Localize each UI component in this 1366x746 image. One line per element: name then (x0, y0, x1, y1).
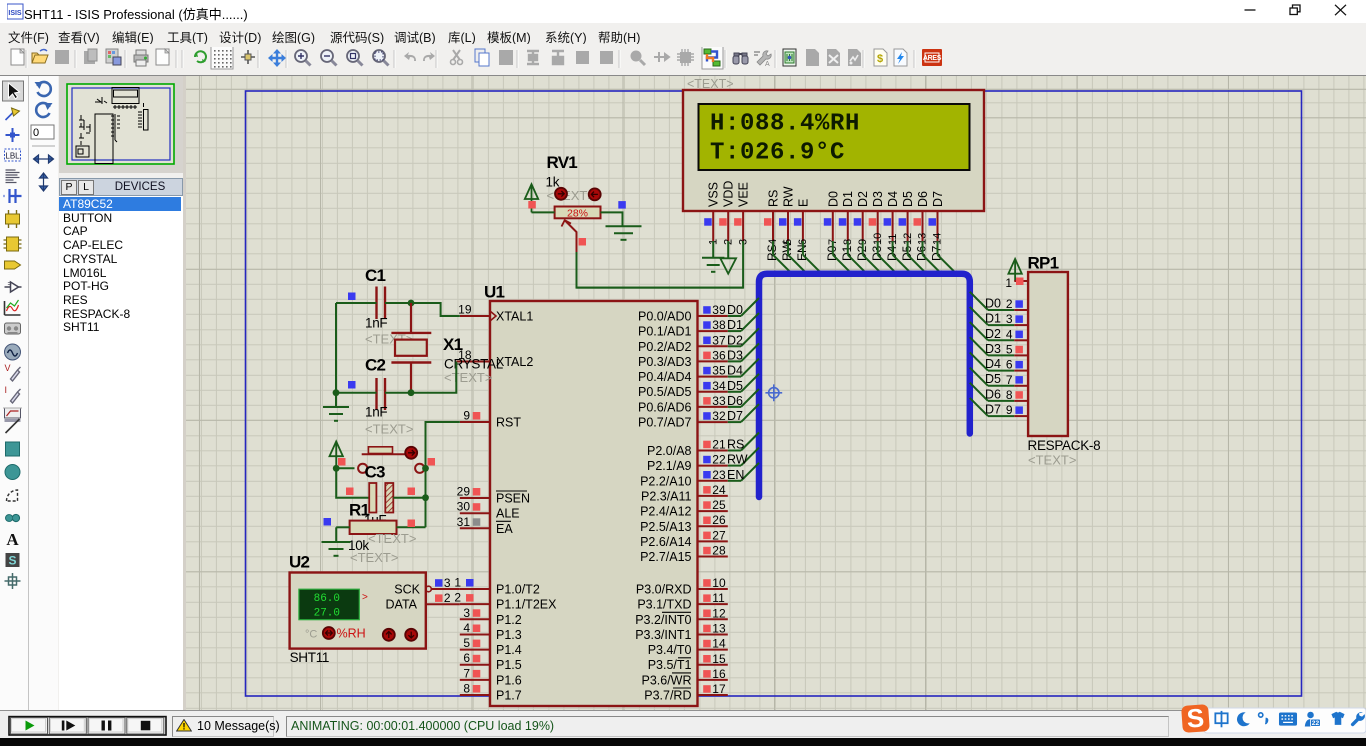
U1 pin 17 (P3.7) stub (698, 682, 728, 696)
svg-text:39: 39 (712, 303, 726, 317)
LCD pin 8 D1 (839, 191, 855, 245)
svg-text:V: V (5, 363, 11, 373)
U1 pin 10 (P3.0) stub (698, 576, 728, 590)
wire LCD pin 10 to bus (878, 241, 897, 274)
svg-text:4: 4 (463, 621, 470, 635)
C1 value 1nF (365, 316, 387, 331)
svg-text:P1.3: P1.3 (496, 628, 522, 642)
U1 pin label P0.0/AD0 (638, 310, 692, 324)
svg-text:VSS: VSS (707, 182, 721, 207)
U2 humidity/temperature display (299, 589, 359, 620)
node label D4 at RP1 pin 6 (985, 357, 1001, 371)
U2 reference label (289, 553, 310, 572)
node label D0 at LCD pin 7 (825, 245, 839, 261)
U1 pin 29 stub (457, 485, 490, 499)
svg-text:30: 30 (457, 500, 471, 514)
svg-text:D6: D6 (916, 191, 930, 207)
U2 %RH label (337, 627, 366, 641)
RP1 pin 5 wire from bus (net D3) (970, 337, 1028, 356)
svg-text:D3: D3 (985, 342, 1001, 356)
U2 mode button (323, 627, 335, 639)
svg-text:EN: EN (727, 468, 744, 482)
wire LCD pin 7 to bus (833, 241, 852, 274)
mouse cursor crosshair (765, 384, 782, 401)
wire U1 P2.2 to bus (728, 463, 759, 481)
RP1 reference label (1028, 254, 1059, 273)
svg-text:34: 34 (712, 379, 726, 393)
U1 pin label P2.7/A15 (640, 550, 691, 564)
svg-text:$: $ (877, 53, 883, 65)
node label D0 at RP1 pin 2 (985, 297, 1001, 311)
U1 pin label P2.6/A14 (640, 535, 691, 549)
svg-text:28: 28 (712, 544, 726, 558)
node junction button/rail (422, 465, 429, 472)
U2 up button (383, 629, 395, 641)
U1 pin 11 (P3.1) stub (698, 591, 728, 605)
svg-text:P3.4/T0: P3.4/T0 (648, 643, 692, 657)
U1 pin 19 (XTAL1) stub (458, 303, 490, 317)
U2 pin label SCK (394, 583, 431, 597)
svg-text:T:026.9°C: T:026.9°C (710, 140, 845, 167)
U1 reference label (484, 283, 505, 302)
svg-text:P2.2/A10: P2.2/A10 (640, 474, 691, 488)
U1 pin label P0.7/AD7 (638, 416, 692, 430)
U1 pin 13 (P3.3) stub (698, 622, 728, 636)
svg-text:RESPACK-8: RESPACK-8 (1028, 438, 1101, 453)
svg-text:P1.4: P1.4 (496, 643, 522, 657)
LCD pin 5 RW (779, 186, 796, 245)
svg-text:RW: RW (727, 453, 748, 467)
svg-text:27: 27 (712, 528, 726, 542)
U1 pin label P1.0/T2 (496, 583, 540, 597)
U1 pin label P2.5/A13 (640, 520, 691, 534)
ground at RV1 right (606, 226, 642, 240)
svg-text:1nF: 1nF (365, 316, 387, 331)
U1 pin label P0.6/AD6 (638, 400, 692, 414)
U1 pin 21 (P2.0) stub (698, 438, 728, 452)
node label EN at U1 P2.2 (727, 468, 744, 482)
RP1 property text (1028, 453, 1076, 468)
U1 pin 14 (P3.4) stub (698, 637, 728, 651)
svg-text:P0.0/AD0: P0.0/AD0 (638, 310, 692, 324)
svg-text:%RH: %RH (337, 627, 366, 641)
svg-text:D3: D3 (871, 191, 885, 207)
svg-text:D1: D1 (727, 318, 743, 332)
wire C1 left to rail (336, 302, 377, 304)
logic state square XTAL1 net (348, 293, 356, 301)
svg-text:29: 29 (457, 485, 471, 499)
RV1 increment button (555, 188, 567, 200)
svg-text:P2.1/A9: P2.1/A9 (647, 459, 692, 473)
svg-text:36: 36 (712, 348, 726, 362)
bus D0-D7/control (blue) (759, 274, 970, 497)
svg-text:P3.1/TXD: P3.1/TXD (637, 598, 691, 612)
svg-text:17: 17 (712, 682, 726, 696)
node label RS at U1 P2.0 (727, 438, 744, 452)
wire LCD VSS to ground (712, 241, 714, 258)
svg-text:P0.5/AD5: P0.5/AD5 (638, 385, 692, 399)
microcontroller U1 AT89C52 body (490, 301, 698, 706)
U2 property text (350, 550, 398, 565)
LCD pin 10 D3 (869, 191, 886, 245)
svg-text:P2.5/A13: P2.5/A13 (640, 520, 691, 534)
svg-text:11: 11 (712, 591, 725, 605)
potentiometer RV1 body (555, 207, 601, 220)
LCD pin 2 VDD (719, 181, 736, 245)
RP1 part name RESPACK-8 (1028, 438, 1101, 453)
U1 pin label P0.4/AD4 (638, 370, 692, 384)
svg-text:RS: RS (767, 190, 781, 207)
logic square C3 left (346, 488, 354, 496)
wire R1 left to ground (336, 526, 349, 528)
devices selector header (59, 178, 183, 196)
U1 pin label P3.7/RD (644, 688, 691, 703)
LCD pin 12 D5 (899, 191, 916, 245)
U1 pin 25 (P2.4) stub (698, 498, 728, 512)
node label D6 at U1 P0.6 (727, 394, 743, 408)
svg-text:ALE: ALE (496, 507, 520, 521)
capacitor C2 (377, 378, 386, 410)
svg-text:D3: D3 (727, 348, 743, 362)
U1 pin 4 (P1.3) stub (460, 621, 490, 635)
svg-text:5: 5 (463, 636, 470, 650)
power terminal (VCC) at RP1 pin 1 (1008, 259, 1021, 281)
svg-text:RS: RS (727, 438, 744, 452)
RV1 property text (547, 188, 595, 203)
wire LCD pin 11 to bus (893, 241, 912, 274)
U1 pin label P1.5 (496, 658, 522, 672)
U1 pin label P3.2/INT0 (635, 612, 691, 627)
C2 reference label (365, 356, 386, 375)
RP1 pin 6 wire from bus (net D4) (970, 352, 1028, 371)
LCD display LCD1 (LM016L) body (683, 90, 984, 211)
svg-text:U2: U2 (289, 553, 310, 572)
svg-text:D0: D0 (826, 191, 840, 207)
svg-text:<TEXT>: <TEXT> (368, 531, 416, 546)
toolbar (0, 44, 1366, 76)
RP1 pin 7 wire from bus (net D5) (970, 368, 1028, 387)
svg-text:7: 7 (1006, 373, 1013, 387)
U1 pin label P2.3/A11 (641, 489, 692, 503)
RP1 pin 1 stub (1005, 276, 1028, 290)
wire VCC to button (336, 467, 354, 469)
svg-text:R1: R1 (349, 501, 370, 520)
crystal X1 (391, 303, 431, 393)
wire U1 P2.0 to bus (728, 433, 759, 451)
U1 pin 16 (P3.6) stub (698, 667, 728, 681)
svg-text:ISIS: ISIS (8, 10, 22, 17)
svg-text:!: ! (183, 722, 186, 732)
resistor pack RP1 body (1028, 272, 1068, 436)
power terminal (VCC) above reset button (330, 441, 343, 468)
svg-text:RST: RST (496, 416, 521, 430)
node label D1 at RP1 pin 3 (985, 312, 1001, 326)
svg-text:P1.1/T2EX: P1.1/T2EX (496, 598, 557, 612)
U1 pin 39 (P0.0) stub and wire to bus (698, 298, 760, 317)
U1 pin label XTAL2 (496, 355, 533, 369)
U2 celsius label (305, 629, 317, 641)
node junction rail/ground (333, 389, 340, 396)
svg-text:D4: D4 (985, 357, 1001, 371)
svg-text:3: 3 (463, 606, 470, 620)
svg-text:25: 25 (712, 498, 726, 512)
RP1 pin 3 wire from bus (net D1) (970, 307, 1028, 326)
svg-text:S: S (1186, 703, 1205, 734)
U1 pin 38 (P0.1) stub and wire to bus (698, 313, 760, 332)
button actuator (red) (405, 447, 417, 459)
svg-text:VEE: VEE (737, 182, 751, 207)
node junction VCC/button (333, 465, 340, 472)
node label D1 at U1 P0.1 (727, 318, 743, 332)
svg-text:D1: D1 (841, 191, 855, 207)
power terminal (VCC) at RV1 left (525, 184, 538, 212)
svg-text:2: 2 (454, 591, 461, 605)
RV1 value 1k (546, 175, 560, 190)
wire LCD pin 4 to bus (773, 241, 792, 274)
svg-text:D5: D5 (901, 191, 915, 207)
svg-text:27.0: 27.0 (314, 608, 340, 620)
svg-text:P2.4/A12: P2.4/A12 (640, 505, 691, 519)
U1 pin 36 (P0.3) stub and wire to bus (698, 343, 760, 362)
node label D3 at U1 P0.3 (727, 348, 743, 362)
node label D5 at LCD pin 12 (900, 245, 914, 261)
LCD pin 4 RS (764, 190, 781, 245)
U1 pin label P3.5/T1 (648, 658, 692, 672)
U1 pin 31 stub (457, 515, 490, 529)
svg-text:86.0: 86.0 (314, 593, 340, 605)
svg-text:9: 9 (1006, 403, 1013, 417)
wire LCD pin 12 to bus (908, 241, 927, 274)
svg-text:P1.5: P1.5 (496, 658, 522, 672)
svg-text:D4: D4 (886, 191, 900, 207)
X1 value CRYSTAL (444, 356, 504, 371)
U1 pin 2 (P1.1) stub (454, 591, 490, 605)
svg-text:1: 1 (454, 576, 461, 590)
X1 property text (444, 370, 492, 385)
U1 pin label P1.1/T2EX (496, 598, 557, 612)
svg-text:D0: D0 (985, 297, 1001, 311)
logic square VCC net near button (338, 458, 346, 466)
wire C2 left to rail (336, 392, 377, 394)
svg-text:D5: D5 (727, 379, 743, 393)
svg-text:P2.3/A11: P2.3/A11 (641, 489, 692, 503)
svg-text:14: 14 (712, 637, 726, 651)
R1 property text (368, 531, 416, 546)
wire LCD pin 6 to bus (803, 241, 822, 274)
svg-text:P1.0/T2: P1.0/T2 (496, 583, 540, 597)
svg-text:23: 23 (712, 468, 726, 482)
node junction C2/X1 (408, 389, 415, 396)
svg-text:0: 0 (33, 127, 39, 139)
svg-text:3: 3 (1006, 312, 1013, 326)
svg-text:19: 19 (458, 303, 472, 317)
U2 display cursor mark (362, 592, 368, 603)
svg-text:2: 2 (444, 591, 451, 605)
node junction C1/X1 (408, 300, 415, 307)
wire LCD pin 9 to bus (863, 241, 882, 274)
resistor R1 (350, 521, 397, 534)
svg-text:U1: U1 (484, 283, 505, 302)
LCD pin 1 VSS (704, 182, 721, 245)
svg-text:22: 22 (712, 453, 726, 467)
C2 value 1nF (365, 405, 387, 420)
U1 pin 1 (P1.0) stub (454, 576, 490, 590)
capacitor C1 (377, 287, 386, 320)
node label D6 at RP1 pin 8 (985, 387, 1001, 401)
svg-text:9: 9 (463, 409, 470, 423)
svg-text:D7: D7 (985, 403, 1001, 417)
svg-text:P1.6: P1.6 (496, 673, 522, 687)
wire button to rail (424, 467, 425, 469)
wire U1 P2.1 to bus (728, 448, 759, 466)
svg-text:D7: D7 (931, 191, 945, 207)
svg-text:37: 37 (712, 333, 726, 347)
node label D2 at LCD pin 9 (855, 245, 869, 261)
U1 pin 26 (P2.5) stub (698, 513, 728, 527)
U1 pin 28 (P2.7) stub (698, 544, 728, 558)
U1 pin label PSEN (496, 491, 530, 506)
left panel (0, 76, 186, 710)
LCD pin 13 D6 (914, 191, 931, 245)
svg-text:12: 12 (712, 606, 726, 620)
U1 pin label P0.5/AD5 (638, 385, 692, 399)
U1 pin 27 (P2.6) stub (698, 528, 728, 542)
svg-text:26: 26 (712, 513, 726, 527)
node label D5 at RP1 pin 7 (985, 372, 1001, 386)
svg-text:P0.2/AD2: P0.2/AD2 (638, 340, 692, 354)
U1 pin label P2.1/A9 (647, 459, 692, 473)
svg-text:31: 31 (457, 515, 471, 529)
RP1 pin 4 wire from bus (net D2) (970, 322, 1028, 341)
ground below C2 rail (323, 393, 349, 421)
svg-text:35: 35 (712, 364, 726, 378)
node label EN at LCD pin 6 (795, 244, 809, 261)
svg-text:D2: D2 (856, 191, 870, 207)
logic square C3 right (408, 488, 416, 496)
U1 pin label P1.4 (496, 643, 522, 657)
svg-text:S: S (8, 554, 16, 568)
node label RS at LCD pin 4 (765, 244, 779, 261)
svg-text:8: 8 (1006, 388, 1013, 402)
U1 pin 5 (P1.4) stub (460, 636, 490, 650)
logic square RST net near button (428, 458, 436, 466)
C2 property text (365, 422, 413, 437)
svg-text:D2: D2 (727, 333, 743, 347)
U1 pin 8 (P1.7) stub (460, 682, 490, 696)
svg-text:E: E (796, 199, 810, 207)
svg-text:P0.1/AD1: P0.1/AD1 (638, 325, 692, 339)
svg-text:<TEXT>: <TEXT> (547, 188, 595, 203)
U1 pin label P3.1/TXD (637, 598, 691, 612)
wire LCD pin 13 to bus (923, 241, 942, 274)
svg-text:2: 2 (1006, 297, 1013, 311)
sheet border (246, 91, 1302, 696)
svg-text:D0: D0 (727, 303, 743, 317)
svg-text:DATA: DATA (386, 598, 418, 612)
svg-text:<TEXT>: <TEXT> (1028, 453, 1076, 468)
LCD pin 9 D2 (854, 191, 871, 245)
U1 pin 24 (P2.3) stub (698, 483, 728, 497)
devices list (59, 196, 183, 710)
svg-text:XTAL1: XTAL1 (496, 310, 533, 324)
wire C2 right to XTAL2 (385, 362, 456, 393)
U1 pin 9 (RST) stub (460, 409, 490, 423)
sensor U2 SHT11 body (290, 573, 426, 649)
U1 pin label RST (496, 416, 521, 430)
svg-text:SCK: SCK (394, 583, 420, 597)
U1 pin label P0.3/AD3 (638, 355, 692, 369)
svg-text:D2: D2 (985, 327, 1001, 341)
svg-text:D6: D6 (985, 387, 1001, 401)
svg-text:A: A (765, 61, 770, 68)
svg-text:33: 33 (712, 394, 726, 408)
svg-text:P3.2/INT0: P3.2/INT0 (635, 613, 691, 627)
svg-text:P1.7: P1.7 (496, 689, 522, 703)
svg-text:P0.3/AD3: P0.3/AD3 (638, 355, 692, 369)
logic square RV1 wiper (579, 238, 587, 246)
wire LCD VEE to RV1 wiper (577, 241, 744, 288)
svg-text:D6: D6 (727, 394, 743, 408)
svg-text:°C: °C (305, 629, 317, 641)
svg-text:32: 32 (712, 409, 726, 423)
svg-text:>: > (362, 592, 368, 603)
U1 pin label P1.7 (496, 689, 522, 703)
U1 pin label P3.6/WR (641, 673, 691, 688)
svg-text:<TEXT>: <TEXT> (350, 550, 398, 565)
power terminal (down arrow) at LCD VDD (720, 258, 736, 273)
svg-text:P2.0/A8: P2.0/A8 (647, 444, 692, 458)
U1 pin label P1.2 (496, 613, 522, 627)
wire rail to C3 left (336, 468, 369, 497)
wire left rail C1-C2 (335, 303, 337, 393)
svg-text:D5: D5 (985, 372, 1001, 386)
U1 pin label P1.3 (496, 628, 522, 642)
U1 pin 18 (XTAL2) stub (456, 348, 490, 362)
LCD text line1 H:088.4%RH (710, 111, 860, 138)
U1 pin label P3.0/RXD (636, 583, 692, 597)
svg-text:<TEXT>: <TEXT> (444, 370, 492, 385)
wire C3 right to rail (393, 497, 425, 499)
node label D7 at U1 P0.7 (727, 409, 743, 423)
LCD pin 3 VEE (734, 182, 751, 245)
RV1 decrement button (589, 188, 601, 200)
C1 property text (365, 332, 413, 347)
logic square R1 right (408, 520, 416, 528)
LCD pin 7 D0 (824, 191, 841, 245)
node label D3 at LCD pin 10 (870, 245, 884, 261)
sogou input bar (1178, 703, 1366, 737)
svg-text:13: 13 (712, 622, 726, 636)
U1 pin label P2.2/A10 (640, 474, 691, 488)
node label D2 at RP1 pin 4 (985, 327, 1001, 341)
R1 reference label (349, 501, 370, 520)
status bar (0, 710, 1366, 739)
svg-text:1nF: 1nF (365, 405, 387, 420)
U1 pin 32 (P0.7) stub and wire to bus (698, 404, 760, 423)
svg-text:P0.4/AD4: P0.4/AD4 (638, 370, 692, 384)
U1 pin label P0.1/AD1 (638, 325, 692, 339)
LCD pin 14 D7 (929, 191, 946, 245)
svg-text:7: 7 (463, 666, 470, 680)
node label RW at U1 P2.1 (727, 453, 748, 467)
svg-text:P0.6/AD6: P0.6/AD6 (638, 400, 692, 414)
U2 pin 3 SCK wire to U1 P1.0 (431, 576, 460, 590)
U1 pin 33 (P0.6) stub and wire to bus (698, 389, 760, 408)
logic square RV1 right (618, 201, 626, 209)
window title bar (0, 0, 1366, 23)
logic state square XTAL2 net (348, 381, 356, 389)
svg-text:VDD: VDD (722, 181, 736, 207)
